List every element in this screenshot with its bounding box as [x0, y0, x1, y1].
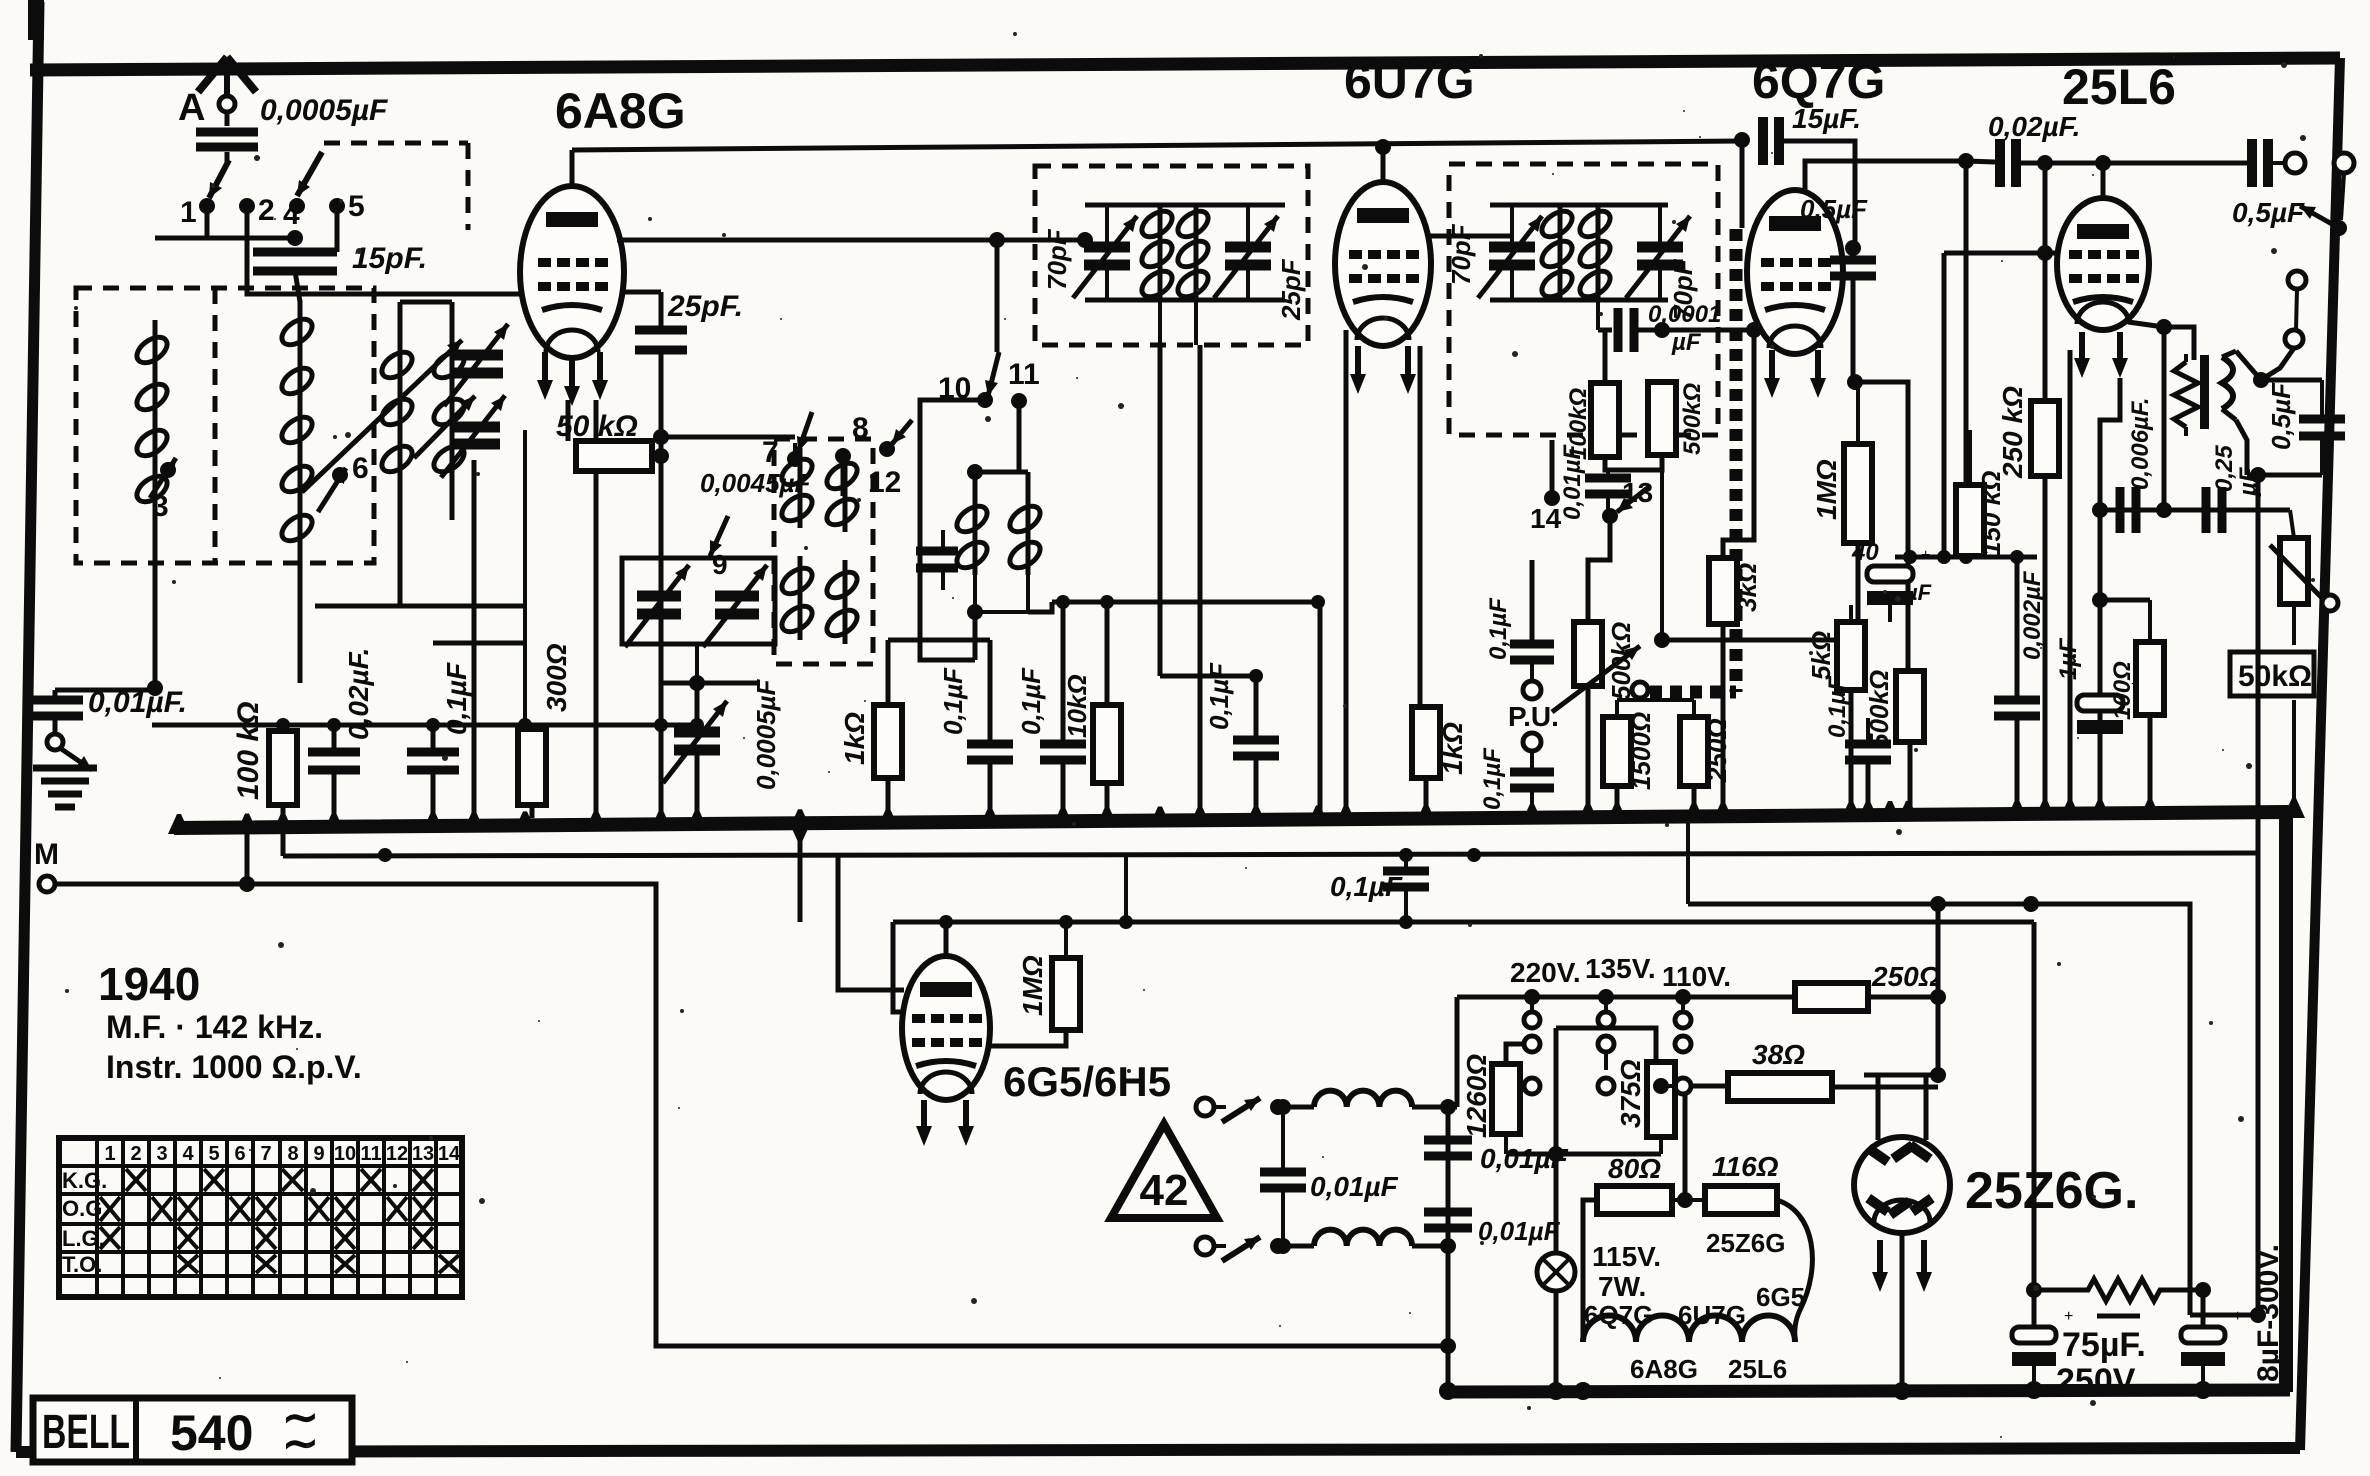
svg-text:13: 13 — [412, 1143, 434, 1165]
wire — [1672, 1198, 1705, 1202]
pin arrows 6Q7G — [1769, 350, 1775, 384]
variable capacitor IF1 primary 70pF — [1084, 242, 1130, 253]
capacitor 0,02uF — [1995, 139, 2005, 187]
pin arrows 6G5 — [921, 1100, 927, 1132]
wire — [1683, 1094, 1688, 1200]
switch arrow — [1222, 1098, 1260, 1122]
osc coil 1b — [843, 452, 848, 532]
svg-text:BELL: BELL — [42, 1406, 130, 1459]
node — [1654, 322, 1670, 338]
svg-text:0,1µF: 0,1µF — [1016, 667, 1046, 735]
wire — [1588, 522, 1610, 622]
wire — [1964, 161, 1969, 557]
wire — [886, 640, 891, 705]
wire — [1658, 205, 1662, 247]
svg-text:0,006µF.: 0,006µF. — [2127, 397, 2154, 490]
svg-text:T.O.: T.O. — [62, 1252, 102, 1277]
resistor 10kOhm — [1093, 705, 1121, 783]
svg-text:115V.: 115V. — [1592, 1241, 1661, 1272]
contact 8 — [835, 448, 851, 464]
switch arrow — [1222, 1237, 1260, 1261]
svg-text:135V.: 135V. — [1585, 953, 1656, 984]
wire — [2264, 348, 2294, 378]
wire B+ down — [2032, 922, 2037, 1327]
wire — [2201, 1366, 2205, 1390]
25Z6G plates — [1865, 1144, 1890, 1166]
capacitor 0,01uF line1 — [1424, 1136, 1472, 1145]
capacitor 25pF — [635, 326, 687, 335]
wire lamp branch — [1554, 1028, 1559, 1254]
resistor 116Ohm — [1705, 1186, 1777, 1214]
wire grid 25L6 — [1944, 251, 2061, 256]
svg-text:0,02µF.: 0,02µF. — [1988, 111, 2080, 142]
capacitor 0,1uF — [1233, 736, 1279, 745]
wire — [1214, 1244, 1226, 1248]
svg-text:110V.: 110V. — [1662, 961, 1731, 992]
tap contact 3 — [160, 462, 176, 478]
wire — [2256, 853, 2261, 1315]
wire — [1634, 328, 1660, 333]
svg-text:375Ω: 375Ω — [1615, 1059, 1646, 1128]
svg-text:0,0005µF: 0,0005µF — [751, 678, 781, 790]
wire — [944, 922, 949, 958]
wire — [1530, 751, 1534, 772]
svg-text:3kΩ: 3kΩ — [1732, 563, 1762, 612]
wire — [988, 640, 993, 744]
wire — [1615, 700, 1619, 717]
potentiometer 500kOhm volume — [1574, 622, 1602, 686]
contact 7 — [787, 451, 803, 467]
contact 2 — [239, 198, 255, 214]
wire — [2164, 327, 2194, 360]
terminal — [1196, 1098, 1214, 1116]
variable capacitor IF1 secondary — [1225, 242, 1271, 253]
wire — [1506, 1044, 1522, 1064]
resistor 300Ohm — [518, 729, 546, 805]
svg-text:70pF: 70pF — [1446, 223, 1476, 285]
wire — [1832, 1085, 1938, 1090]
node — [2092, 502, 2108, 518]
svg-text:40: 40 — [1851, 539, 1879, 566]
wire — [1942, 253, 1947, 557]
resistor 1MOhm — [1844, 444, 1872, 543]
tuning gang arrow — [302, 340, 462, 492]
wire — [1605, 455, 1662, 470]
variable capacitor IF2 secondary 70pF — [1637, 242, 1683, 253]
resistor 500kOhm detector — [1648, 382, 1676, 455]
terminal PU2 — [1523, 733, 1541, 751]
svg-text:0,01µF.: 0,01µF. — [88, 686, 187, 719]
wire — [2190, 1313, 2258, 1318]
svg-text:25pF: 25pF — [1276, 258, 1306, 321]
shielded lead horizontal — [1650, 686, 1736, 699]
resistor 100Ohm — [2136, 642, 2164, 715]
terminal — [2285, 153, 2305, 173]
switch arrow 10 — [988, 352, 999, 396]
svg-text:L.G.: L.G. — [62, 1226, 105, 1251]
capacitor 0,01uF line2 — [1424, 1208, 1472, 1217]
wire — [941, 530, 945, 551]
terminal — [2334, 153, 2354, 173]
wire M line — [55, 884, 1448, 1346]
wire rail top — [1490, 203, 1668, 208]
wire — [1105, 205, 1109, 247]
svg-text:µF: µF — [1671, 329, 1702, 356]
wire — [1455, 997, 1460, 1107]
terminal PU1 — [1523, 681, 1541, 699]
capacitor osc feedback — [916, 547, 958, 556]
svg-text:50kΩ: 50kΩ — [2238, 660, 2312, 693]
coil IF1 secondary — [1194, 205, 1199, 300]
electrolytic 1uF — [2077, 695, 2123, 711]
svg-text:5kΩ: 5kΩ — [1806, 631, 1836, 680]
svg-text:220V.: 220V. — [1510, 957, 1581, 988]
wire plate — [2128, 322, 2164, 327]
wire plate line — [572, 141, 1742, 150]
wire — [332, 725, 337, 752]
capacitor 0,5uF — [1830, 256, 1876, 265]
wire cathode — [594, 400, 599, 814]
wire IF1 sec down — [1194, 300, 1198, 345]
wire — [2043, 163, 2048, 401]
node — [1440, 1238, 1456, 1254]
node — [2092, 592, 2108, 608]
wire — [920, 400, 985, 660]
node — [2026, 1282, 2042, 1298]
wire — [1596, 300, 1600, 330]
switch arrow 3 — [150, 458, 176, 498]
wire — [2268, 161, 2284, 165]
label 50kOhm box — [2230, 652, 2314, 696]
node — [1930, 896, 1946, 912]
svg-text:6Q7G: 6Q7G — [1584, 1300, 1653, 1330]
wire — [1686, 814, 1690, 904]
svg-text:0,0005µF: 0,0005µF — [260, 94, 388, 127]
oscillator dashed box — [774, 439, 873, 664]
wire A minus line — [283, 853, 2258, 856]
svg-text:0,1µF: 0,1µF — [1330, 871, 1403, 902]
capacitor 0,5uF tone — [2299, 415, 2345, 424]
wire — [622, 290, 661, 295]
wire rail top — [1085, 203, 1285, 208]
node — [1847, 374, 1863, 390]
wire — [888, 638, 990, 643]
node — [967, 604, 983, 620]
variable capacitor main tuning — [450, 422, 500, 433]
capacitor 0,006uF — [2116, 487, 2125, 533]
wire — [1424, 778, 1429, 814]
wire contact1 down — [155, 212, 207, 238]
svg-text:1MΩ: 1MΩ — [1017, 955, 1048, 1016]
wire — [1586, 686, 1591, 814]
svg-text:8: 8 — [287, 1143, 298, 1165]
svg-text:5: 5 — [348, 190, 365, 223]
wire — [566, 400, 571, 441]
svg-text:9: 9 — [313, 1143, 324, 1165]
svg-text:1kΩ: 1kΩ — [839, 712, 870, 765]
border frame right — [2300, 58, 2340, 1450]
wire contact5 down — [335, 212, 340, 252]
svg-text:A: A — [178, 87, 205, 129]
antenna A — [198, 57, 227, 92]
svg-text:0,1µF: 0,1µF — [1204, 662, 1234, 730]
wire — [2043, 476, 2048, 814]
wire — [1855, 382, 1908, 671]
contact 12 — [879, 441, 895, 457]
node — [1440, 1338, 1456, 1354]
svg-text:0,002µF: 0,002µF — [2019, 570, 2046, 660]
potentiometer 50kOhm tone — [2280, 538, 2308, 604]
resistor 1260Ohm — [1492, 1064, 1520, 1134]
wire — [2016, 161, 2250, 166]
node — [653, 429, 669, 445]
svg-text:25Z6G.: 25Z6G. — [1965, 1162, 2138, 1220]
border frame left — [16, 2, 39, 1452]
wire 11 down — [1017, 407, 1022, 470]
resistor 3kOhm — [1709, 558, 1737, 624]
svg-text:25Z6G: 25Z6G — [1706, 1228, 1786, 1258]
contact 13 — [1602, 508, 1618, 524]
wire — [1530, 560, 1535, 644]
node — [2023, 896, 2039, 912]
contact 5 — [329, 198, 345, 214]
wire — [1968, 556, 1972, 557]
dashed wire to 6A8G — [324, 141, 468, 146]
wire — [1583, 1200, 1597, 1342]
svg-text:250 kΩ: 250 kΩ — [1997, 386, 2028, 479]
svg-text:10kΩ: 10kΩ — [1062, 674, 1092, 738]
wire — [1603, 330, 1608, 383]
tube 6U7G — [1335, 182, 1431, 346]
svg-text:75µF.: 75µF. — [2062, 1326, 2146, 1364]
wire — [798, 822, 803, 922]
svg-text:80Ω: 80Ω — [1608, 1153, 1661, 1184]
svg-text:15µF.: 15µF. — [1792, 103, 1861, 134]
svg-text:7W.: 7W. — [1598, 1271, 1646, 1302]
wire — [1849, 605, 1853, 622]
wire — [281, 805, 285, 856]
wire — [1105, 602, 1110, 705]
variable capacitor trimmer — [453, 350, 503, 361]
capacitor 0,0001uF — [1614, 308, 1623, 352]
switch arrow — [60, 748, 92, 770]
wire screen — [2068, 350, 2073, 814]
dashed divider — [213, 288, 218, 563]
wire — [793, 443, 797, 459]
svg-text:14: 14 — [438, 1143, 461, 1165]
antenna coil dashed box — [76, 288, 374, 563]
wire — [1660, 455, 1664, 640]
wire B — [893, 920, 2034, 925]
wire — [995, 240, 1000, 352]
svg-text:+: + — [2064, 1308, 2073, 1325]
wire — [2162, 327, 2167, 510]
coupling coil a — [973, 495, 978, 575]
svg-text:1µF: 1µF — [2055, 637, 2082, 680]
node — [2250, 467, 2266, 483]
wire — [2032, 1366, 2036, 1390]
svg-text:250Ω: 250Ω — [1871, 961, 1941, 992]
wire rail bottom — [1490, 298, 1668, 303]
node — [1077, 232, 1093, 248]
svg-text:150 kΩ: 150 kΩ — [1976, 471, 2006, 556]
terminal — [1196, 1237, 1214, 1255]
wire — [1246, 205, 1250, 247]
wire top cap — [2101, 163, 2106, 200]
wire — [433, 641, 525, 646]
node — [967, 464, 983, 480]
svg-text:0,1µF: 0,1µF — [1824, 675, 1851, 738]
selector socket — [1675, 1036, 1691, 1052]
svg-text:0,5µF: 0,5µF — [2232, 197, 2305, 228]
capacitor 0,1uF coupling — [1383, 867, 1429, 876]
svg-text:1: 1 — [104, 1143, 115, 1165]
wire — [1344, 330, 1349, 814]
selector socket — [1598, 1036, 1614, 1052]
svg-text:µF: µF — [1904, 580, 1932, 605]
wire plate to IF1 — [617, 238, 1085, 243]
chassis ground bus — [174, 812, 2286, 1392]
coil IF2 primary — [1558, 205, 1563, 300]
wire — [1866, 718, 1870, 744]
wire rail bottom — [1085, 298, 1285, 303]
svg-text:15pF.: 15pF. — [352, 242, 427, 275]
node — [1958, 153, 1974, 169]
svg-text:1kΩ: 1kΩ — [1437, 722, 1468, 775]
wire — [1851, 276, 1856, 382]
contact 10 — [977, 392, 993, 408]
node — [1930, 1067, 1946, 1083]
node — [2253, 372, 2269, 388]
node — [147, 680, 163, 696]
wire L2 down — [298, 555, 303, 683]
wire — [472, 460, 477, 814]
triangle 42 — [1111, 1124, 1217, 1218]
wire contact2 down — [247, 212, 560, 294]
capacitor 0,01uF avc — [1585, 474, 1631, 483]
svg-text:540: 540 — [170, 1405, 253, 1461]
svg-text:M.F. · 142 kHz.: M.F. · 142 kHz. — [106, 1009, 323, 1045]
node — [1270, 1099, 1286, 1115]
svg-text:25pF.: 25pF. — [667, 290, 743, 323]
resistor 100kOhm detector — [1591, 383, 1619, 457]
bus junction below — [789, 822, 811, 842]
wire — [1740, 140, 1745, 228]
padder arrow — [414, 396, 475, 458]
terminal — [2288, 271, 2306, 289]
wire — [1158, 345, 1163, 676]
tap contact 6 — [332, 467, 348, 483]
svg-text:6: 6 — [352, 452, 369, 485]
heater chain — [1583, 1316, 1795, 1343]
node — [689, 675, 705, 691]
coil IF2 secondary — [1596, 205, 1601, 300]
contact 9 arrow — [710, 516, 728, 556]
selector socket — [1524, 1078, 1540, 1094]
svg-text:116Ω: 116Ω — [1712, 1151, 1779, 1182]
capacitor 0,1uF pu top — [1510, 640, 1554, 649]
wire — [1779, 141, 1855, 246]
node — [1440, 1099, 1456, 1115]
band table frame — [59, 1138, 462, 1297]
wire avc rail — [152, 723, 697, 728]
osc coil 1a — [798, 448, 803, 528]
shielded lead vertical — [1730, 229, 1743, 692]
wire — [2296, 289, 2297, 330]
capacitor 0,5uF output — [2247, 139, 2257, 187]
pot wiper — [2270, 545, 2322, 598]
node — [1654, 632, 1670, 648]
transformer core — [2200, 355, 2209, 429]
svg-text:6A8G: 6A8G — [1630, 1354, 1698, 1384]
switch arm to contact 4 — [297, 152, 322, 196]
svg-text:5: 5 — [208, 1143, 219, 1165]
node — [2037, 245, 2053, 261]
svg-text:300Ω: 300Ω — [541, 643, 572, 712]
wire top cap — [1381, 147, 1386, 182]
resistor 38Ohm — [1728, 1073, 1832, 1101]
wire — [450, 485, 455, 520]
svg-text:1260Ω: 1260Ω — [1461, 1054, 1492, 1138]
svg-text:P.U.: P.U. — [1508, 701, 1559, 732]
mains choke top — [1314, 1091, 1412, 1107]
wire grid — [838, 855, 904, 990]
wire — [2236, 420, 2247, 475]
wire plate box — [1864, 1073, 1940, 1078]
resistor 5kOhm — [1837, 622, 1865, 690]
table grid — [95, 1138, 99, 1297]
svg-text:µF: µF — [2235, 466, 2262, 497]
svg-text:14: 14 — [1530, 503, 1562, 534]
trimmer box — [622, 558, 775, 644]
tube 25L6 — [2057, 198, 2149, 330]
wire — [1504, 1134, 1508, 1154]
wire — [1028, 602, 1052, 612]
wire — [1908, 742, 1913, 814]
contact 11 — [1011, 393, 1027, 409]
terminal — [2285, 330, 2303, 348]
title box — [33, 1398, 352, 1462]
wire — [1404, 855, 1408, 871]
node — [2250, 1307, 2266, 1323]
node — [2331, 220, 2347, 236]
svg-text:M: M — [34, 838, 59, 871]
switch arrow — [2300, 206, 2339, 228]
IF1 dashed box — [1035, 166, 1308, 345]
wire — [2290, 510, 2294, 538]
wire avc line — [1662, 638, 1858, 643]
switch arrow 12 — [892, 420, 912, 444]
node — [2156, 502, 2172, 518]
svg-text:0,1µF: 0,1µF — [441, 662, 472, 735]
switch arm to contact 1 — [209, 160, 229, 198]
wire — [431, 725, 436, 752]
resistor 250Ohm — [1680, 717, 1708, 786]
svg-text:7: 7 — [260, 1143, 271, 1165]
wire cathode — [1418, 346, 1423, 707]
svg-text:6G5/6H5: 6G5/6H5 — [1003, 1058, 1171, 1105]
svg-text:∼: ∼ — [282, 1419, 319, 1468]
scan speckles — [1384, 316, 1388, 320]
wire — [155, 236, 295, 241]
capacitor 0,01uF across mains — [1260, 1168, 1306, 1177]
transformer winding — [2222, 357, 2233, 409]
tube 6G5/6H5 — [902, 956, 990, 1100]
wire — [1662, 328, 1754, 333]
wire IF1 com down — [1158, 300, 1162, 345]
wire — [2320, 380, 2324, 419]
svg-text:1940: 1940 — [98, 958, 200, 1010]
